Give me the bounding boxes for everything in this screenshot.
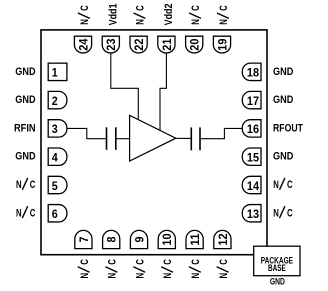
svg-text:23: 23	[104, 38, 118, 50]
svg-text:13: 13	[247, 207, 259, 221]
svg-text:10: 10	[160, 233, 174, 245]
svg-text:N: N	[16, 207, 22, 219]
svg-text:GND: GND	[15, 94, 35, 106]
svg-text:21: 21	[160, 38, 174, 50]
svg-text:GND: GND	[273, 94, 293, 106]
svg-text:C: C	[218, 5, 230, 11]
svg-text:5: 5	[52, 179, 58, 193]
svg-text:C: C	[287, 179, 293, 191]
svg-text:15: 15	[247, 151, 259, 165]
svg-text:1: 1	[52, 66, 58, 80]
svg-text:GND: GND	[270, 276, 285, 286]
svg-text:C: C	[30, 207, 36, 219]
svg-text:8: 8	[105, 236, 119, 242]
svg-text:N: N	[16, 179, 22, 191]
svg-text:C: C	[30, 179, 36, 191]
svg-text:RFIN: RFIN	[14, 122, 36, 134]
svg-text:C: C	[107, 259, 119, 265]
svg-text:N: N	[107, 273, 119, 279]
svg-text:C: C	[79, 5, 91, 11]
svg-text:N: N	[273, 179, 279, 191]
svg-text:RFOUT: RFOUT	[273, 122, 303, 134]
svg-text:2: 2	[52, 94, 58, 108]
svg-text:7: 7	[77, 236, 91, 242]
svg-text:C: C	[135, 5, 147, 11]
svg-text:GND: GND	[273, 151, 293, 163]
svg-text:GND: GND	[15, 66, 35, 78]
svg-text:18: 18	[247, 66, 259, 80]
svg-text:C: C	[79, 259, 91, 265]
svg-text:C: C	[287, 207, 293, 219]
svg-text:N: N	[218, 273, 230, 279]
svg-text:N: N	[190, 19, 202, 25]
svg-text:19: 19	[215, 38, 229, 50]
svg-text:16: 16	[247, 122, 259, 136]
svg-text:N: N	[273, 207, 279, 219]
svg-text:GND: GND	[273, 66, 293, 78]
svg-text:C: C	[190, 259, 202, 265]
svg-text:N: N	[79, 19, 91, 25]
svg-text:C: C	[218, 259, 230, 265]
svg-text:11: 11	[188, 233, 202, 246]
svg-text:24: 24	[76, 38, 90, 50]
svg-text:22: 22	[132, 38, 146, 50]
svg-text:N: N	[79, 273, 91, 279]
svg-text:GND: GND	[15, 151, 35, 163]
svg-text:N: N	[134, 273, 146, 279]
svg-text:N: N	[218, 19, 230, 25]
svg-text:12: 12	[216, 233, 230, 245]
svg-text:N: N	[190, 273, 202, 279]
svg-text:N: N	[162, 273, 174, 279]
svg-text:Vdd1: Vdd1	[107, 4, 119, 26]
svg-text:C: C	[162, 259, 174, 265]
svg-text:17: 17	[247, 94, 259, 108]
svg-text:4: 4	[52, 151, 58, 165]
svg-text:BASE: BASE	[268, 263, 286, 273]
svg-text:14: 14	[247, 179, 259, 193]
svg-text:C: C	[190, 5, 202, 11]
svg-text:20: 20	[188, 38, 202, 50]
svg-text:3: 3	[52, 122, 58, 136]
svg-text:Vdd2: Vdd2	[163, 4, 175, 26]
svg-text:6: 6	[52, 207, 58, 221]
svg-text:C: C	[134, 259, 146, 265]
svg-text:9: 9	[132, 236, 146, 242]
svg-text:N: N	[135, 19, 147, 25]
